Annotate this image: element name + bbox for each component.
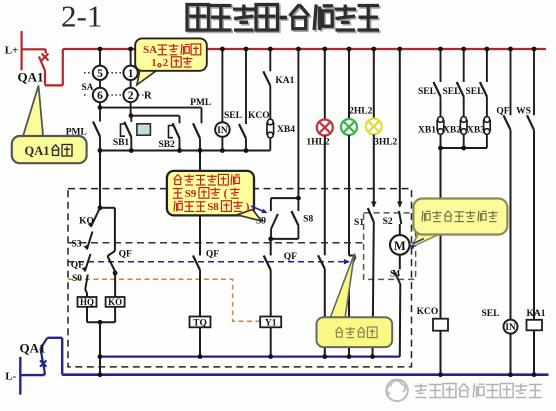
contact PML right <box>193 123 200 138</box>
link XB2 <box>460 121 467 131</box>
contact SEL 3 <box>480 82 487 97</box>
wire XB1 to join rail <box>440 134 442 148</box>
coil KO <box>106 297 125 307</box>
wire col1 down <box>99 108 101 122</box>
wire XB3 to join rail <box>486 134 488 148</box>
lamp 2HL2 (green) <box>341 119 357 135</box>
wire join to KCO coil <box>440 148 442 319</box>
svg-text:QF: QF <box>496 107 509 117</box>
callout 储能弹簧未储能 pointer <box>412 232 442 247</box>
wire bus to WS <box>533 49 535 115</box>
wire QF to Y1 coil <box>270 270 272 317</box>
wire bus to SEL coil <box>221 49 223 122</box>
dashed enclosure (mechanism box) <box>68 189 412 367</box>
wire KCO coil to bus <box>440 331 442 375</box>
contact QF (TQ branch) <box>193 256 200 271</box>
SA contact 5 <box>93 66 107 80</box>
contact SEL 2 <box>457 82 464 97</box>
svg-text:KO: KO <box>79 217 94 227</box>
svg-text:L+: L+ <box>5 45 19 57</box>
XB join rail <box>441 147 487 149</box>
wire QF to SEL coil (IN) <box>510 130 512 320</box>
wire bus to S2 <box>399 49 401 207</box>
svg-text:HQ: HQ <box>80 297 94 307</box>
link XB1 <box>437 121 444 131</box>
wire TQ to rail <box>199 327 201 356</box>
svg-text:XB1: XB1 <box>418 126 436 136</box>
callout QA1断开 pointer <box>23 86 44 138</box>
watermark logo <box>386 380 408 402</box>
contact KCO <box>239 124 246 139</box>
node junction col2 <box>129 113 134 118</box>
callout SA置于就地 pointer <box>137 70 158 85</box>
wire S4 to rail end <box>399 284 402 357</box>
branch right QF contact <box>100 207 115 209</box>
SA contact 6 <box>93 88 107 102</box>
link XB3 <box>484 121 491 131</box>
svg-text:IN: IN <box>217 125 228 135</box>
contact QF (left chain) <box>85 254 91 272</box>
switch S9 (mirrored) <box>270 198 272 211</box>
contact under 2HL2 (with tick) <box>349 255 356 257</box>
coil KCO <box>433 319 448 331</box>
wire bus to SA-5 <box>99 49 101 66</box>
coil SEL bottom (IN) <box>504 320 518 334</box>
wire SA2 to node <box>130 102 132 116</box>
svg-text:KA1: KA1 <box>275 76 294 86</box>
contact PML left <box>93 122 100 137</box>
svg-text:S3: S3 <box>71 240 81 250</box>
svg-text:S8: S8 <box>207 201 219 213</box>
svg-text:KCO: KCO <box>417 307 439 317</box>
arrow to M <box>413 239 425 244</box>
pushbutton SB1 <box>130 116 132 122</box>
svg-text:2HL2: 2HL2 <box>349 107 372 117</box>
wire SA1-SA2 <box>130 80 132 88</box>
switch S2 <box>397 202 403 208</box>
contact QF (right) <box>504 115 511 130</box>
svg-text:5: 5 <box>97 68 103 80</box>
svg-text:KCO: KCO <box>248 111 270 121</box>
wire PML to QF (TQ branch) <box>199 151 201 256</box>
svg-text:2: 2 <box>128 90 134 102</box>
callout 开关分闸 pointer <box>330 254 354 319</box>
wire KA1 coil to bus <box>533 330 535 374</box>
callout 开关分闸 text <box>336 327 344 337</box>
svg-text:1: 1 <box>128 68 134 80</box>
disconnector QA1 (-) <box>19 357 21 395</box>
svg-text:SB2: SB2 <box>159 140 176 150</box>
wire motor to S4 <box>399 255 401 270</box>
svg-text:QA1: QA1 <box>25 144 50 158</box>
callout 开关在运行位置 box <box>167 171 254 216</box>
lamp 1HL2 (red) <box>317 120 333 136</box>
indicator rectangle (cyan) <box>137 124 151 135</box>
bus L- negative (navy) <box>62 373 548 376</box>
svg-text:SA: SA <box>82 83 94 93</box>
svg-text:QF: QF <box>119 250 132 260</box>
svg-text:SEL: SEL <box>224 111 242 121</box>
S9/S8 bottom bar <box>271 238 299 240</box>
orange dashed connection <box>68 279 261 321</box>
wire HQ down <box>86 307 88 323</box>
contact KA1 <box>263 71 270 86</box>
motor M (spring charging) <box>390 235 410 255</box>
wire bus to QF (right) <box>510 49 512 115</box>
contact QF (to KO coil) <box>108 256 116 272</box>
switch S1 <box>371 202 377 208</box>
switch S4 <box>394 270 401 284</box>
wire bus to S9/S8 node <box>297 49 299 198</box>
lamp 3HL2 (yellow) <box>366 119 382 135</box>
SA contact 1 <box>123 66 137 80</box>
wire XB2 to join rail <box>463 134 465 148</box>
watermark text 泛在电力物联网建设 <box>415 384 428 398</box>
node QF-KO junction <box>113 271 118 276</box>
wire SEL to XB1 <box>440 97 442 117</box>
svg-text:6: 6 <box>97 90 103 102</box>
wire S9/S8 node to QF (Y1 branch) <box>270 239 272 256</box>
wire KA1 to XB4 <box>269 86 271 120</box>
switch S0 <box>85 275 88 290</box>
svg-text:WS: WS <box>516 107 531 117</box>
wire bus to 2HL2 <box>348 49 350 119</box>
HQ/KO join bar <box>87 321 115 323</box>
coil SEL (IN) <box>215 122 230 137</box>
coil Y1 <box>260 317 281 328</box>
wire SEL to XB3 <box>486 97 488 117</box>
svg-text:KO: KO <box>108 297 122 307</box>
callout 开关分闸 box <box>317 317 393 347</box>
wire bus to SEL contact 1 <box>440 49 442 82</box>
svg-text:(: ( <box>224 188 228 200</box>
wire branch to PML right <box>100 107 202 109</box>
wire bus to SA-1 <box>130 49 132 66</box>
link XB4 <box>267 123 274 134</box>
contact KO <box>91 208 100 227</box>
callout QA1断开 box <box>12 136 87 163</box>
svg-text:S0: S0 <box>72 274 82 284</box>
wire col1 rail to KO <box>99 151 101 208</box>
wire bus to SEL contact 2 <box>463 49 465 82</box>
wire QF to TQ coil <box>199 270 201 317</box>
svg-text:S2: S2 <box>383 217 393 227</box>
wire XB4 to rail <box>269 138 271 151</box>
node junction col1 <box>98 105 103 110</box>
contact WS <box>527 115 534 130</box>
pushbutton SB2 <box>173 123 180 138</box>
callout 开关在运行位置 text <box>174 174 182 184</box>
SA dotted linkage lines <box>84 72 92 74</box>
svg-text:QF: QF <box>284 252 297 262</box>
node KO junction <box>98 205 103 210</box>
svg-text:2-1: 2-1 <box>61 0 102 34</box>
wire 3HL2 to S1 <box>373 134 375 206</box>
svg-text:R: R <box>144 91 152 102</box>
coil KA1 <box>527 320 543 331</box>
wire to rails <box>99 322 101 374</box>
gray dashed box S1/S2/M <box>364 213 416 280</box>
wire SA5-SA6 <box>99 80 101 88</box>
SA contact 2 <box>123 88 137 102</box>
callout 储能弹簧未储能 text <box>422 211 431 222</box>
svg-text:S4: S4 <box>390 269 400 279</box>
svg-text:S9: S9 <box>185 188 197 200</box>
wire bus to SEL contact 3 <box>486 49 488 82</box>
wire Y1 to rail <box>270 327 272 356</box>
wire bus to 1HL2 <box>324 49 326 120</box>
svg-text:Y1: Y1 <box>265 318 277 328</box>
contact QF (Y1 branch) <box>264 256 271 271</box>
svg-text:SB1: SB1 <box>113 138 130 148</box>
coil HQ <box>78 297 97 307</box>
svg-text:): ) <box>246 201 250 213</box>
svg-text:SEL: SEL <box>418 87 436 97</box>
inner negative rail (navy) <box>100 356 400 358</box>
callout 开关在运行位置 pointer <box>237 210 262 222</box>
bus junction dots <box>98 47 103 52</box>
wire bus to 3HL2 <box>373 49 375 119</box>
contact SEL 1 <box>434 82 441 97</box>
wire SEL to XB2 <box>463 97 465 117</box>
wire WS to KA1 coil <box>533 130 535 320</box>
svg-text:S1: S1 <box>354 218 364 228</box>
coil TQ <box>190 317 211 328</box>
svg-text:PML: PML <box>190 98 211 108</box>
svg-text:S8: S8 <box>303 215 313 225</box>
svg-text:2: 2 <box>163 58 168 69</box>
title CJK 分闸合闸-初始状态 <box>189 6 211 32</box>
callout 储能弹簧未储能 box <box>413 199 507 235</box>
svg-text:3HL2: 3HL2 <box>374 138 397 148</box>
callout SA box <box>135 38 207 70</box>
svg-text:TQ: TQ <box>193 318 207 328</box>
svg-text:QF: QF <box>71 261 84 271</box>
wire SA6 to node <box>99 102 101 107</box>
bus L+ positive (red) <box>63 48 546 50</box>
svg-text:QF: QF <box>206 250 219 260</box>
svg-text:IN: IN <box>505 322 516 332</box>
svg-text:L-: L- <box>5 371 16 383</box>
S9/S8 top bar <box>271 197 299 199</box>
svg-text:XB3: XB3 <box>467 126 485 136</box>
svg-text:SEL: SEL <box>482 309 500 319</box>
svg-text:XB4: XB4 <box>277 125 295 135</box>
svg-text:1HL2: 1HL2 <box>306 138 329 148</box>
switch S8 <box>297 198 299 211</box>
svg-text:QA1: QA1 <box>18 70 44 85</box>
switch S3 <box>87 232 93 250</box>
svg-text:M: M <box>394 239 406 253</box>
inner dashed line black <box>68 242 364 244</box>
svg-text:SEL: SEL <box>466 87 484 97</box>
wire S2 to motor <box>399 224 401 235</box>
svg-text:KA1: KA1 <box>527 309 546 319</box>
svg-text:XB2: XB2 <box>443 126 461 136</box>
wire bus to KCO contact <box>245 49 247 124</box>
contact under 1HL2 <box>318 255 325 269</box>
svg-text:1: 1 <box>151 58 156 69</box>
svg-text:SA: SA <box>143 44 157 56</box>
svg-text:SEL: SEL <box>443 87 461 97</box>
disconnector QA1 (+) <box>21 31 23 70</box>
sub rail y150 <box>100 150 270 152</box>
wire bus to KA1 contact <box>269 49 271 71</box>
svg-text:QA1: QA1 <box>20 340 46 355</box>
arrow to S9 <box>251 206 265 212</box>
wire KO coil down <box>114 307 116 323</box>
wire branch to SB2 <box>130 113 132 116</box>
inner dashed line navy with arrow <box>68 261 338 263</box>
